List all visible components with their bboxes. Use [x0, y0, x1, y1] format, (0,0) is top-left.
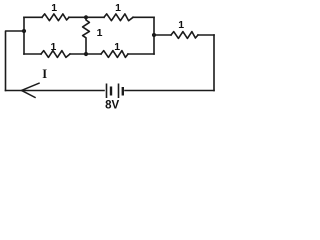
wire mid output segment — [154, 34, 171, 36]
wire bottom branch right segment — [128, 53, 154, 55]
wire bottom right (battery to right edge) — [125, 90, 214, 92]
svg-text:1: 1 — [114, 41, 120, 53]
resistor R1 top-left 1 ohm — [42, 14, 69, 21]
node bottom junction dot at vertical resistor — [84, 52, 88, 56]
wire bottom branch left segment — [24, 53, 41, 55]
wire top branch left segment — [24, 16, 42, 18]
svg-text:1: 1 — [97, 27, 103, 39]
battery B1 long plate right — [118, 84, 120, 99]
resistor R4 bottom-right 1 ohm — [101, 51, 128, 58]
svg-text:1: 1 — [115, 2, 121, 14]
node A junction dot — [22, 29, 26, 33]
svg-text:1: 1 — [50, 41, 56, 53]
wire top branch right segment — [133, 16, 154, 18]
wire top branch middle segment — [69, 16, 104, 18]
battery B1 short plate right — [122, 87, 124, 96]
wire right edge down — [213, 35, 215, 91]
wire bottom left (left edge to battery) — [6, 90, 105, 92]
resistor R5 middle vertical 1 ohm — [83, 17, 90, 54]
battery B1 short plate left — [110, 87, 112, 96]
svg-text:1: 1 — [51, 2, 57, 14]
svg-text:I: I — [42, 67, 47, 81]
wire bottom branch middle segment — [70, 53, 101, 55]
wire from R6 to right edge — [198, 34, 214, 36]
node right junction dot — [152, 33, 156, 37]
resistor R3 bottom-left 1 ohm — [41, 51, 70, 58]
resistor R6 right 1 ohm — [171, 32, 198, 39]
wire left stub from node A to left edge and down — [6, 31, 25, 91]
resistor R2 top-right 1 ohm — [104, 14, 133, 21]
wire branch vertical at left (top branch to bottom branch) — [23, 17, 25, 54]
battery B1 long plate left — [106, 84, 108, 99]
wire right branch vertical — [153, 17, 155, 54]
svg-text:8V: 8V — [105, 100, 119, 112]
current arrow head pointing left — [22, 83, 40, 97]
node top junction dot at vertical resistor — [84, 15, 88, 19]
svg-text:1: 1 — [178, 19, 184, 31]
